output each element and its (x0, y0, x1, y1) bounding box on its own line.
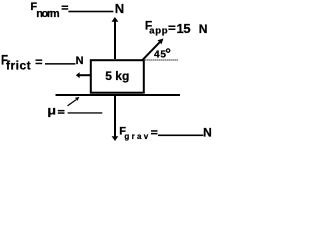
svg-text:N: N (115, 1, 124, 16)
svg-text:5 kg: 5 kg (105, 69, 129, 83)
svg-text:N: N (76, 55, 84, 67)
svg-text:frict: frict (6, 59, 31, 73)
svg-text:45: 45 (154, 50, 167, 61)
svg-text:N: N (203, 125, 212, 139)
svg-text:grav: grav (124, 132, 150, 141)
svg-text:μ: μ (47, 103, 56, 117)
svg-text:N: N (199, 22, 208, 36)
svg-text:app: app (149, 26, 168, 37)
svg-text:norm: norm (36, 8, 60, 20)
svg-text:15: 15 (177, 21, 191, 36)
